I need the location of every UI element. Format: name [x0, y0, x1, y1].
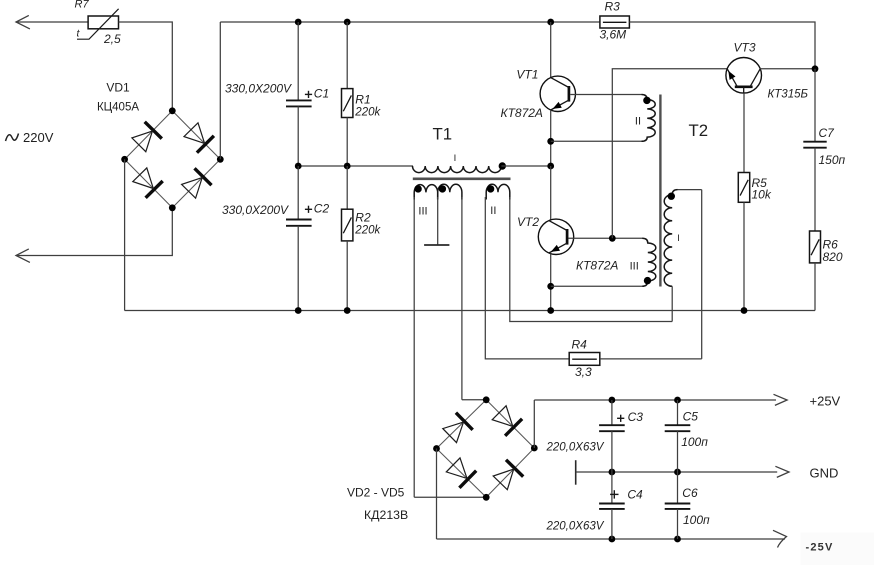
transformer T1 winding I (primary)	[413, 166, 502, 173]
wire: T1 winding III tap to chassis	[437, 197, 439, 245]
junction: VT1 emitter / T1 winding I	[547, 163, 554, 170]
junction: middle rail / C1-C2	[295, 163, 302, 170]
junction: GND rail / C5-C6	[674, 469, 681, 476]
junction: bottom rail / C2	[295, 307, 302, 314]
wire: C5 upper lead	[677, 400, 679, 425]
phase dot: T2 winding II top	[643, 97, 650, 104]
wire: R1 lower lead	[346, 118, 348, 167]
wire: C4 upper lead	[611, 472, 613, 504]
transistor VT3	[726, 58, 762, 94]
node: VD1 top (AC)	[169, 107, 176, 114]
svg-text:C3: C3	[628, 410, 644, 424]
junction: bottom rail / R2	[344, 307, 351, 314]
input terminal arrow, AC line 1	[16, 15, 30, 29]
svg-text:КД213В: КД213В	[364, 508, 408, 522]
svg-text:R2: R2	[355, 210, 371, 224]
svg-text:220,0X63V: 220,0X63V	[546, 521, 605, 533]
wire: VD2 bridge plus up to +25V rail	[533, 400, 535, 448]
phase dot: T2 winding III bottom	[644, 277, 651, 284]
resistor R4	[569, 353, 600, 366]
wire: C6 lower lead	[677, 509, 679, 539]
wire: R5 lower lead to bottom rail	[743, 202, 745, 310]
transformer T1 winding III section b	[438, 184, 462, 199]
svg-text:GND: GND	[810, 466, 839, 481]
wire: VT2 base to T2 winding III top	[568, 237, 642, 239]
phase dot: T2 winding I top	[668, 193, 675, 200]
capacitor C6	[665, 503, 691, 505]
wire: GND rail	[576, 471, 778, 473]
svg-text:VT1: VT1	[516, 68, 538, 82]
output arrow GND	[775, 466, 789, 477]
junction: GND rail / C3-C4	[609, 469, 616, 476]
diode VD5 (bridge, bottom-right arm)	[506, 460, 523, 477]
svg-text:10k: 10k	[752, 188, 772, 202]
junction: VT3 collector / R3 / C7	[812, 65, 819, 72]
wire: C3 upper lead	[611, 400, 613, 425]
wire: C7 to R6	[814, 148, 816, 231]
svg-text:-25V: -25V	[806, 542, 834, 554]
junction: bottom rail / VT2 emitter	[547, 307, 554, 314]
output arrow +25V	[774, 394, 788, 405]
svg-text:КТ872А: КТ872А	[501, 106, 543, 120]
svg-text:330,0X200V: 330,0X200V	[222, 203, 289, 217]
svg-text:КТ872А: КТ872А	[576, 259, 618, 273]
wire: VT2 emitter down to bottom rail	[550, 254, 552, 311]
wire: C3 lower lead	[611, 431, 613, 472]
svg-text:C2: C2	[314, 201, 330, 215]
wire: VT1 emitter down	[550, 110, 552, 166]
svg-text:C5: C5	[683, 410, 699, 424]
svg-text:C1: C1	[314, 87, 329, 101]
svg-text:T1: T1	[433, 125, 453, 144]
node: VD1 left (minus)	[121, 156, 128, 163]
transformer T1 winding III section a	[414, 185, 438, 200]
wire: T1 winding II left lead down to R4	[485, 197, 569, 359]
wire: VD2 bridge minus down to -25V rail	[436, 449, 438, 540]
svg-text:100п: 100п	[681, 435, 708, 449]
junction: VT1 emitter / T2 winding II bottom	[547, 138, 554, 145]
phase dot: T1 winding IIIb start	[439, 185, 446, 192]
svg-text:III: III	[418, 205, 427, 217]
wire: T1 winding IIIa lead down	[413, 197, 415, 497]
chassis bar (T1 secondary center tap)	[424, 244, 449, 246]
wire: T1 winding IIIa to VD2 bottom node	[414, 496, 486, 498]
svg-text:I: I	[677, 233, 680, 244]
wire: VD1 plus node up to top rail	[219, 22, 221, 159]
resistor R3	[600, 16, 630, 28]
svg-text:VD2 - VD5: VD2 - VD5	[347, 485, 405, 499]
svg-text:220,0X63V: 220,0X63V	[546, 441, 605, 453]
svg-text:3,6М: 3,6М	[600, 28, 627, 42]
wire: bridge VD1 edge top-right	[172, 111, 220, 160]
svg-text:220k: 220k	[354, 107, 381, 119]
wire: AC line 2 from arrow to bridge VD1 bottom	[16, 208, 172, 256]
wire: bridge VD1 edge left-bottom	[125, 159, 173, 208]
wire: VD1 minus node down to bottom rail	[124, 159, 126, 310]
wire: bridge VD2 edge left-bottom	[437, 449, 487, 498]
label + (C3 polarity)	[617, 417, 624, 419]
junction: top rail / C1	[295, 19, 302, 26]
svg-text:R1: R1	[355, 92, 370, 106]
svg-text:220V: 220V	[23, 130, 54, 145]
svg-text:VD1: VD1	[106, 81, 130, 95]
phase dot: T1 winding II start	[487, 185, 494, 192]
capacitor C7	[803, 141, 826, 143]
wire: R4 right lead to T2 winding I riser	[600, 358, 702, 360]
wire: AC line 1 from arrow to R7	[16, 21, 88, 23]
svg-text:II: II	[490, 205, 496, 217]
svg-text:3,3: 3,3	[575, 365, 592, 379]
wire: VT3 collector to C7 node	[760, 68, 815, 70]
svg-text:150п: 150п	[819, 153, 846, 167]
wire: VT3 base down to R5	[743, 93, 745, 172]
phase dot: T1 winding I end	[499, 162, 506, 169]
wire: +25V rail	[534, 399, 776, 401]
wire: bridge VD2 edge bottom-right	[486, 448, 534, 497]
wire: bridge VD1 edge bottom-right	[172, 159, 220, 208]
chassis bar (GND terminal)	[575, 460, 577, 485]
wire: bridge VD1 edge left-top	[125, 111, 173, 160]
diode VD1c (bridge, left-bottom arm)	[146, 181, 163, 198]
diode VD1a (bridge, left-top arm)	[145, 122, 162, 139]
wire: VT1 base to T2 winding II top	[570, 94, 641, 96]
wire: C1 lower lead	[297, 106, 299, 166]
wire: C6 upper lead	[677, 472, 679, 504]
svg-text:330,0X200V: 330,0X200V	[225, 81, 292, 95]
svg-text:C7: C7	[819, 126, 836, 140]
wire: T2 winding II bottom to VT1 emitter	[551, 140, 642, 142]
resistor R6	[810, 231, 821, 263]
wire: C4 lower lead	[611, 509, 613, 539]
svg-text:R7: R7	[75, 0, 90, 11]
transformer T2 winding II	[642, 95, 656, 142]
wire: R1 upper lead	[346, 22, 348, 89]
svg-text:R4: R4	[572, 338, 588, 352]
wire: VT3 emitter to VT2 base node	[612, 69, 727, 239]
svg-text:C6: C6	[682, 486, 698, 500]
svg-text:R3: R3	[605, 0, 621, 14]
capacitor C4 (electrolytic)	[599, 503, 625, 505]
svg-text:I: I	[454, 153, 457, 164]
svg-text:VT3: VT3	[734, 41, 756, 55]
phase dot: T1 winding IIIa start	[414, 185, 421, 192]
svg-text:+25V: +25V	[810, 393, 841, 408]
wire: VT2 collector lead	[550, 166, 552, 220]
wire: T1 winding IIIb lead down	[461, 197, 463, 400]
node: VD2 bridge bottom	[483, 494, 490, 501]
junction: +25V rail / C3	[609, 397, 616, 404]
wire: VT1 collector from top rail	[550, 22, 552, 78]
capacitor C5	[665, 424, 691, 426]
junction: VT2 base / VT3 emitter line	[609, 235, 616, 242]
thermistor R7	[88, 16, 118, 29]
diode VD4 (bridge, left-bottom arm)	[459, 471, 476, 488]
transformer T2 core	[659, 95, 661, 287]
wire: bridge VD2 edge top-right	[486, 400, 534, 448]
junction: top rail / VT1 collector	[547, 19, 554, 26]
transistor VT2	[538, 219, 573, 254]
wire: R2 upper lead	[346, 166, 348, 209]
node: VD2 bridge top	[483, 396, 490, 403]
wire: C2 upper lead	[297, 166, 299, 220]
svg-text:100п: 100п	[683, 513, 710, 527]
svg-text:III: III	[630, 261, 639, 273]
node: VD1 bottom (AC)	[169, 204, 176, 211]
white patch behind -25V label	[801, 533, 874, 565]
transformer T1 winding II	[486, 184, 510, 199]
wire: bridge VD2 edge left-top	[437, 400, 487, 449]
junction: VT2 emitter / T2 winding III bottom	[547, 283, 554, 290]
wire: R4 right lead up	[701, 190, 703, 359]
junction: bottom rail / R5	[741, 307, 748, 314]
node: VD2 bridge right (plus)	[531, 445, 538, 452]
label + (C1 polarity)	[305, 93, 312, 95]
resistor R2	[342, 209, 353, 241]
junction: top rail / R1	[344, 19, 351, 26]
wire: T2 winding I top to R4 right lead	[678, 189, 702, 191]
wire: -25V rail	[437, 538, 786, 540]
wire: T2 winding I bottom down-left	[671, 286, 673, 321]
transformer T2 winding I	[664, 190, 677, 287]
svg-text:КЦ405А: КЦ405А	[97, 102, 139, 114]
svg-text:220k: 220k	[354, 225, 381, 237]
wire: middle rail to T1 primary	[298, 165, 413, 167]
wire: bottom rail	[125, 310, 815, 312]
diode VD3 (bridge, top-right arm)	[505, 419, 522, 436]
junction: -25V rail / C6	[674, 536, 681, 543]
svg-text:2,5: 2,5	[103, 32, 121, 46]
label ~ (AC sine)	[6, 134, 19, 142]
junction: -25V rail / C4	[609, 536, 616, 543]
transformer T1 core	[413, 178, 511, 181]
svg-text:II: II	[635, 116, 641, 128]
node: VD1 right (plus)	[217, 156, 224, 163]
capacitor C2 (electrolytic)	[286, 219, 312, 221]
wire: T1 winding I to VT1/VT2 node	[501, 165, 550, 167]
transistor VT1	[540, 76, 575, 111]
resistor R5	[738, 173, 749, 203]
wire: C5 lower lead	[677, 431, 679, 472]
resistor R1	[342, 89, 353, 118]
node: VD2 bridge left (minus)	[433, 445, 440, 452]
wire: R6 lower lead to bottom rail	[814, 263, 816, 311]
svg-text:820: 820	[823, 250, 843, 264]
diode VD1b (bridge, top-right arm)	[197, 136, 214, 153]
wire: C1 upper lead	[297, 22, 299, 100]
capacitor C1 (electrolytic)	[286, 99, 312, 101]
wire: C2 lower lead	[297, 226, 299, 311]
label + (C4 polarity)	[610, 493, 618, 495]
output arrow -25V	[773, 530, 787, 547]
input terminal arrow, AC line 2	[16, 249, 30, 263]
label + (C2 polarity)	[305, 208, 312, 210]
capacitor C3 (electrolytic)	[599, 424, 625, 426]
wire: T1 winding IIIb to VD2 top node	[462, 399, 486, 401]
svg-text:T2: T2	[689, 121, 709, 140]
svg-text:КТ315Б: КТ315Б	[768, 89, 809, 101]
wire: T2 winding III bottom to VT2 emitter	[551, 285, 642, 287]
junction: middle rail / R1-R2	[344, 163, 351, 170]
diode VD2 (bridge, left-top arm)	[456, 413, 473, 430]
wire: R2 lower lead	[346, 241, 348, 311]
svg-text:VT2: VT2	[517, 215, 539, 229]
diode VD1d (bridge, bottom-right arm)	[195, 168, 212, 185]
wire: R7 to bridge VD1 top	[119, 22, 173, 111]
transformer T2 winding III	[642, 238, 656, 286]
junction: +25V rail / C5	[674, 397, 681, 404]
wire: top rail right section	[629, 22, 815, 69]
wire: C7 upper lead	[814, 69, 816, 142]
svg-text:C4: C4	[627, 487, 643, 501]
wire: top rail left section	[220, 21, 600, 23]
wire: T1 winding II right lead down	[510, 197, 672, 322]
